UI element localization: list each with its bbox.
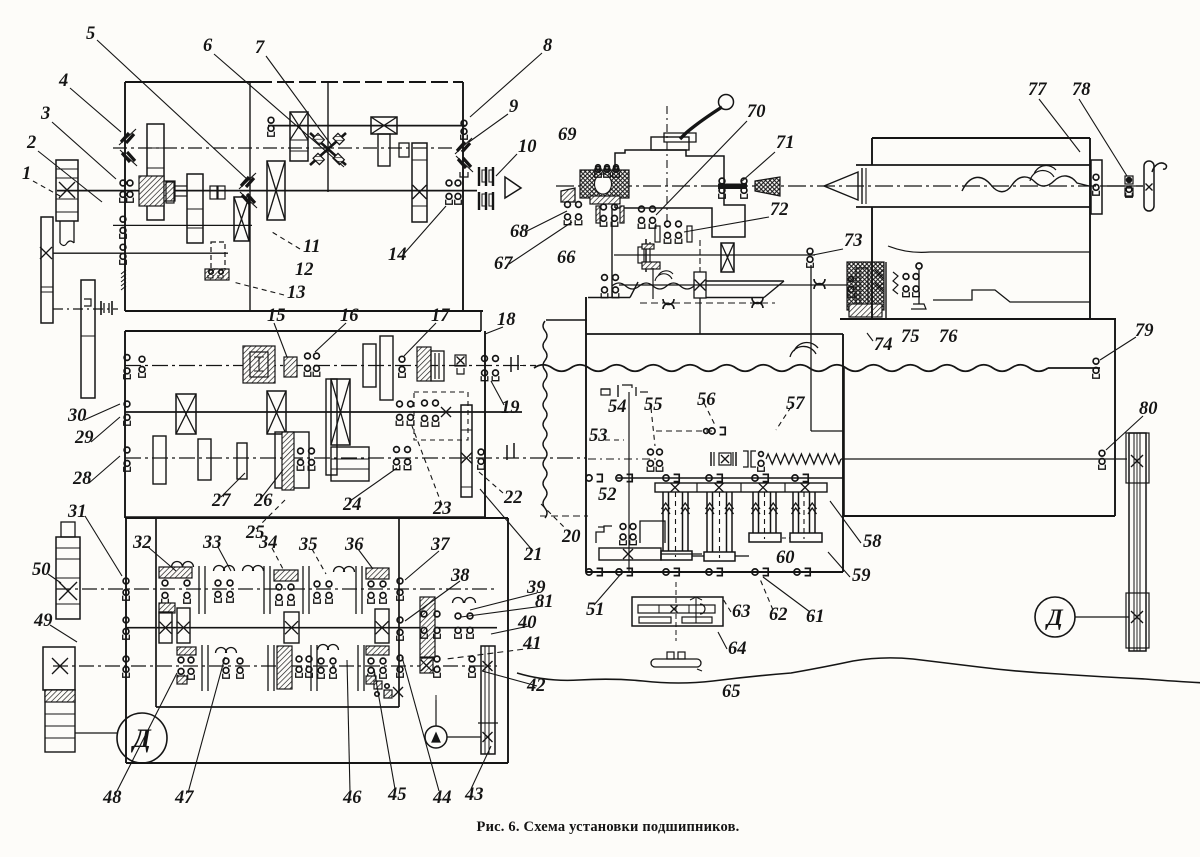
gear pair row2 left	[159, 612, 172, 643]
bearing pair 56	[709, 428, 715, 434]
tailstock center cone	[824, 172, 858, 200]
svg-text:31: 31	[67, 502, 87, 522]
wall bearings feed V	[124, 355, 130, 361]
spindle bearing top row	[596, 165, 601, 170]
cluster d2	[216, 648, 227, 653]
svg-text:17: 17	[431, 306, 450, 326]
separator c3-c4	[302, 566, 304, 614]
bottom box shaft 2	[126, 627, 497, 629]
svg-text:4: 4	[58, 71, 68, 91]
svg-text:9: 9	[509, 97, 518, 117]
svg-text:64: 64	[728, 639, 747, 659]
motor D right circle	[1035, 597, 1075, 637]
inner wall bearings x=399	[397, 578, 403, 584]
shaft III (input to spindle)	[57, 190, 477, 192]
selector plate 64	[632, 597, 723, 626]
belt tongue below A0	[59, 221, 61, 243]
svg-text:53: 53	[589, 426, 608, 446]
wall bearings bottom row1	[123, 578, 129, 584]
svg-text:10: 10	[518, 137, 537, 157]
bearing bar item 71	[719, 178, 725, 184]
svg-text:19: 19	[501, 398, 520, 418]
gear feed VI c	[331, 379, 350, 445]
plate axis	[675, 582, 677, 641]
saddle profile on bed	[930, 251, 1090, 253]
svg-text:69: 69	[558, 125, 577, 145]
rack bar	[655, 483, 827, 492]
wall bearings bottom row2	[123, 617, 129, 623]
apron pennant edge	[706, 280, 784, 282]
svg-text:81: 81	[535, 592, 554, 612]
svg-text:73: 73	[844, 231, 863, 251]
shaft VI axis	[53, 308, 118, 310]
spindle bearing cluster left	[565, 202, 571, 208]
half-nut marks pair 1	[752, 298, 763, 308]
gear feed VI b	[267, 391, 286, 434]
gear on intermediate shaft	[721, 243, 734, 272]
shift head box	[615, 150, 745, 237]
feed rod line	[588, 458, 656, 460]
coupling marks at 510	[506, 445, 508, 460]
gear on shaft II right	[371, 117, 397, 134]
svg-text:21: 21	[523, 545, 543, 565]
motor pulley B (item 49)	[43, 647, 75, 690]
svg-text:46: 46	[342, 788, 362, 808]
coupling on shaft VI axis	[100, 301, 102, 315]
svg-text:7: 7	[255, 38, 265, 58]
svg-text:3: 3	[40, 104, 50, 124]
bearing item 73	[807, 248, 813, 254]
shift fork 2	[706, 492, 708, 552]
svg-text:74: 74	[874, 335, 893, 355]
gear shaft IV	[234, 197, 249, 241]
triple gear block shaft II	[147, 124, 164, 220]
cross shaft dashed	[656, 430, 716, 432]
bearing pairs on y=478	[586, 475, 592, 481]
tall gear VI/VII	[326, 379, 337, 475]
ledge line y=320	[546, 319, 587, 321]
gear feed VI a	[176, 394, 196, 434]
bottom gearbox inner wall	[155, 518, 157, 707]
leadscrew vertical bar	[1129, 433, 1146, 651]
spindle bearing cluster right	[601, 204, 607, 210]
svg-text:18: 18	[497, 310, 516, 330]
svg-text:22: 22	[503, 488, 523, 508]
wall bearings bottom row3	[123, 656, 129, 662]
clutch cluster c1	[159, 567, 192, 578]
feed shaft V (middle box)	[125, 365, 536, 367]
lever ball	[719, 95, 734, 110]
fork foot links	[692, 555, 704, 557]
gear feed VII a	[153, 436, 166, 484]
svg-text:32: 32	[132, 533, 152, 553]
wall bearings shaft V	[120, 244, 126, 250]
svg-text:33: 33	[202, 533, 222, 553]
separator d1-d2	[201, 645, 203, 691]
bed vertical divider	[810, 265, 812, 431]
vertical link x=700	[699, 240, 701, 272]
torn wave double arc	[655, 271, 673, 281]
svg-text:27: 27	[211, 491, 231, 511]
svg-text:77: 77	[1028, 80, 1047, 100]
vertical hatched gear right	[420, 597, 435, 657]
dash link to carriage	[540, 515, 588, 517]
svg-text:37: 37	[430, 535, 450, 555]
lever pivot axis	[666, 106, 668, 232]
part 65	[651, 659, 701, 667]
feed gearbox housing (middle-left)	[125, 330, 481, 332]
thrust bearing pair shaft III mid	[241, 177, 254, 187]
bottom box shaft 3	[53, 665, 497, 667]
gear feed V a	[363, 344, 376, 387]
lever arm	[680, 107, 722, 139]
half-nut marks pair 0	[663, 299, 674, 309]
svg-text:48: 48	[102, 788, 122, 808]
svg-text:80: 80	[1139, 399, 1158, 419]
bearing cluster item 19	[482, 356, 488, 362]
stepped bracket with bearings	[596, 526, 612, 543]
shaft I axis (clutch shaft)	[113, 147, 452, 149]
bearing cluster item 72	[665, 221, 671, 227]
shaft bracket left	[645, 239, 647, 272]
block 74 housing side	[885, 262, 887, 319]
quill bottom line	[856, 206, 1090, 208]
motor pulley A (item 50)	[61, 522, 75, 537]
shaft IV	[113, 224, 252, 226]
snap ring arcs right	[453, 598, 464, 604]
cluster d5	[366, 646, 389, 655]
svg-text:16: 16	[340, 306, 359, 326]
svg-text:8: 8	[543, 36, 552, 56]
speed gearbox housing (top-left)	[125, 81, 255, 83]
svg-text:26: 26	[253, 491, 273, 511]
cluster d4	[318, 645, 329, 651]
apron shaft y=478	[617, 477, 843, 479]
bearing cluster 55	[648, 449, 654, 455]
svg-text:52: 52	[598, 485, 617, 505]
carriage box	[585, 297, 587, 572]
gear X at x=700	[694, 272, 706, 298]
svg-text:56: 56	[697, 390, 716, 410]
shift fork 1	[662, 492, 664, 551]
apron left bearing cluster	[602, 275, 608, 281]
knurled knob	[755, 177, 780, 196]
svg-text:58: 58	[863, 532, 882, 552]
bottom box shaft 1	[56, 588, 497, 590]
svg-text:1: 1	[22, 164, 31, 184]
head lower vertical	[611, 208, 613, 297]
bearing cluster item 16	[305, 353, 311, 359]
wall bearings feed VI	[124, 401, 130, 407]
chuck hatched block	[580, 170, 629, 198]
clutch cluster c5	[366, 568, 389, 579]
svg-text:61: 61	[806, 607, 825, 627]
long bed wavy line	[534, 365, 1048, 372]
svg-text:44: 44	[432, 788, 452, 808]
svg-text:20: 20	[561, 527, 581, 547]
output gear feed VII	[461, 405, 472, 497]
clutch cluster c3	[274, 570, 298, 581]
grid coupling item 10	[478, 167, 480, 186]
pump links	[447, 736, 481, 738]
pulley stack A0 on shaft III left	[56, 160, 78, 221]
intermediate shaft	[614, 254, 815, 256]
svg-text:76: 76	[939, 327, 958, 347]
tall gear shaft II/III right	[412, 143, 427, 222]
shift fork 4	[792, 492, 794, 533]
svg-text:72: 72	[770, 200, 789, 220]
half-nut marks pair 2	[814, 279, 825, 289]
bearing pair 80	[1099, 450, 1105, 456]
svg-text:28: 28	[72, 469, 92, 489]
feed vertical shaft	[628, 392, 630, 572]
svg-text:30: 30	[67, 406, 87, 426]
feed rod spring	[766, 454, 841, 464]
torn bottom edge	[517, 658, 1200, 696]
bearing pairs row3 right	[434, 656, 440, 662]
wall bearing pair at 481	[478, 449, 484, 455]
svg-text:5: 5	[86, 24, 95, 44]
svg-text:13: 13	[287, 283, 306, 303]
screw wavy	[962, 176, 1089, 192]
worm cluster below d5	[374, 681, 382, 689]
feed shaft VI (middle box)	[125, 411, 522, 413]
svg-text:54: 54	[608, 397, 627, 417]
piece item 15	[284, 357, 297, 377]
gear feed V b	[380, 336, 393, 400]
svg-text:75: 75	[901, 327, 920, 347]
hatched bracket feed V	[417, 347, 431, 381]
double gear B1 shaft II	[290, 112, 308, 161]
svg-text:67: 67	[494, 254, 513, 274]
leadscrew bracket item 74	[847, 262, 884, 310]
svg-text:14: 14	[388, 245, 407, 265]
wall bearings feed VII	[124, 447, 130, 453]
shift fork 3	[752, 492, 754, 533]
svg-text:45: 45	[387, 785, 407, 805]
feed output bar (item 42)	[481, 646, 495, 754]
pulley B0 on shaft V left	[41, 217, 53, 323]
handwheel	[1144, 161, 1154, 211]
cone clutch hatched shaft III	[139, 176, 164, 206]
tailstock box	[872, 137, 1090, 139]
separator c4-c5	[355, 566, 357, 614]
bearing cluster item 26	[298, 448, 304, 454]
tailstock end plate	[1091, 160, 1102, 214]
svg-text:29: 29	[74, 428, 94, 448]
svg-text:15: 15	[267, 306, 286, 326]
screw arc break	[1030, 166, 1056, 181]
separator d3-d4	[310, 645, 312, 691]
bearing cluster on VI right	[422, 400, 428, 406]
clutch parts before spring	[710, 452, 712, 466]
cluster d1	[177, 647, 196, 655]
bearing cluster right of 74	[903, 274, 909, 280]
gear feed VII c	[237, 443, 247, 479]
wall bearings shaft III right	[446, 180, 452, 186]
svg-text:43: 43	[464, 785, 484, 805]
svg-text:11: 11	[303, 237, 320, 257]
svg-text:24: 24	[342, 495, 362, 515]
bottom box left shafts stubs	[56, 590, 126, 592]
torn edge wavy vertical x=545	[543, 321, 547, 518]
svg-text:Рис. 6. Схема установки подшип: Рис. 6. Схема установки подшипников.	[477, 819, 740, 835]
svg-text:41: 41	[522, 634, 542, 654]
svg-text:35: 35	[298, 535, 318, 555]
apron dashed shaft y=303	[640, 302, 775, 304]
wall bearings shaft IV	[120, 216, 126, 222]
svg-text:55: 55	[644, 395, 663, 415]
bearing cluster item 24	[394, 447, 400, 453]
bearing + thrust stack shaft II right end	[461, 120, 467, 126]
svg-text:66: 66	[557, 248, 576, 268]
gear shaft III center	[267, 161, 285, 220]
svg-text:12: 12	[295, 260, 314, 280]
bed double arc break	[790, 342, 818, 357]
mini gear w X	[455, 355, 466, 366]
svg-text:59: 59	[852, 566, 871, 586]
svg-text:65: 65	[722, 682, 741, 702]
sliding block dashed	[414, 392, 468, 440]
quill top line	[856, 164, 1090, 166]
svg-text:23: 23	[432, 499, 452, 519]
shaft II	[268, 125, 466, 127]
housing divider wall x=328	[327, 82, 329, 192]
thrust bearing pair shaft I left	[121, 133, 134, 143]
svg-text:36: 36	[344, 535, 364, 555]
shift head top plate	[651, 137, 689, 150]
bearing on end plate	[1093, 174, 1099, 180]
left wall hatch	[121, 270, 126, 274]
svg-text:40: 40	[517, 613, 537, 633]
svg-text:63: 63	[732, 602, 751, 622]
separator d2-d3	[267, 645, 269, 691]
svg-text:2: 2	[26, 133, 36, 153]
separator d4-d5	[357, 645, 359, 691]
hatched base item 13	[205, 269, 229, 280]
svg-text:50: 50	[32, 560, 51, 580]
spindle axis	[556, 185, 1143, 187]
small pair rects shaft III	[210, 186, 217, 199]
pin with ring	[918, 270, 920, 304]
gear on shaft III	[187, 174, 203, 243]
svg-text:78: 78	[1072, 80, 1091, 100]
motor D right link	[1075, 616, 1129, 618]
bearing item 17	[399, 356, 405, 362]
spring small vertical	[893, 272, 898, 294]
bearing pairs bottom row	[586, 569, 592, 575]
svg-text:71: 71	[776, 133, 795, 153]
gear feed VII d with hatched disc	[275, 432, 309, 488]
pulley C0	[81, 280, 95, 398]
hatched clutch block item 15 area	[243, 346, 275, 383]
friction clutch X on shaft I	[310, 133, 346, 165]
svg-text:34: 34	[258, 533, 278, 553]
svg-text:70: 70	[747, 102, 766, 122]
clutch cluster c4	[314, 581, 320, 587]
coupling small	[399, 143, 409, 157]
screw tail line	[1102, 185, 1143, 187]
bearing cluster item 70	[639, 206, 645, 212]
apron top edge	[588, 297, 630, 299]
bearing shaft II left	[268, 117, 274, 123]
apron shaft y=285	[619, 284, 858, 286]
feed shaft VII (middle box)	[125, 457, 586, 459]
bearing cluster right of hatched gear	[421, 611, 427, 617]
apron bar with X	[599, 548, 661, 560]
bed box	[840, 318, 1116, 320]
sliding sleeve shaft V	[211, 242, 225, 269]
coupling marks right of feed V	[510, 357, 512, 372]
crank hook	[1152, 163, 1166, 172]
apron torn wavy	[612, 283, 694, 289]
gear row2 center	[284, 612, 299, 643]
clutch cluster c2	[214, 566, 225, 572]
hatched strip under chuck	[590, 196, 620, 204]
bearing pair 79	[1093, 358, 1099, 364]
oil pump circle	[425, 726, 447, 748]
svg-text:49: 49	[33, 611, 53, 631]
drive arrow	[505, 177, 521, 198]
housing divider wall x=250	[249, 82, 251, 311]
coupling 54	[601, 388, 610, 390]
separator c2-c3	[263, 566, 265, 614]
bearing on feed shaft V	[139, 356, 145, 362]
bearing cluster on VI left	[397, 401, 403, 407]
svg-text:47: 47	[174, 788, 194, 808]
motor D left link	[75, 732, 117, 734]
motor D left circle	[117, 713, 167, 763]
separator c1-c2	[198, 566, 200, 614]
wide sleeve feed VII	[331, 447, 369, 481]
svg-text:6: 6	[203, 36, 213, 56]
svg-text:Д: Д	[1045, 605, 1064, 630]
bearing pair 78	[1126, 177, 1131, 182]
gear row2 right	[375, 609, 389, 643]
gear feed VII b	[198, 439, 211, 480]
bottom gearbox outer housing	[125, 517, 508, 519]
wall bearings shaft III left	[120, 180, 126, 186]
chuck jaw wedge	[561, 188, 575, 202]
vertical link x=653	[652, 268, 654, 299]
shaft V	[53, 252, 228, 254]
svg-text:79: 79	[1135, 321, 1154, 341]
svg-text:60: 60	[776, 548, 795, 568]
cluster d3	[277, 646, 292, 689]
svg-text:38: 38	[450, 566, 470, 586]
